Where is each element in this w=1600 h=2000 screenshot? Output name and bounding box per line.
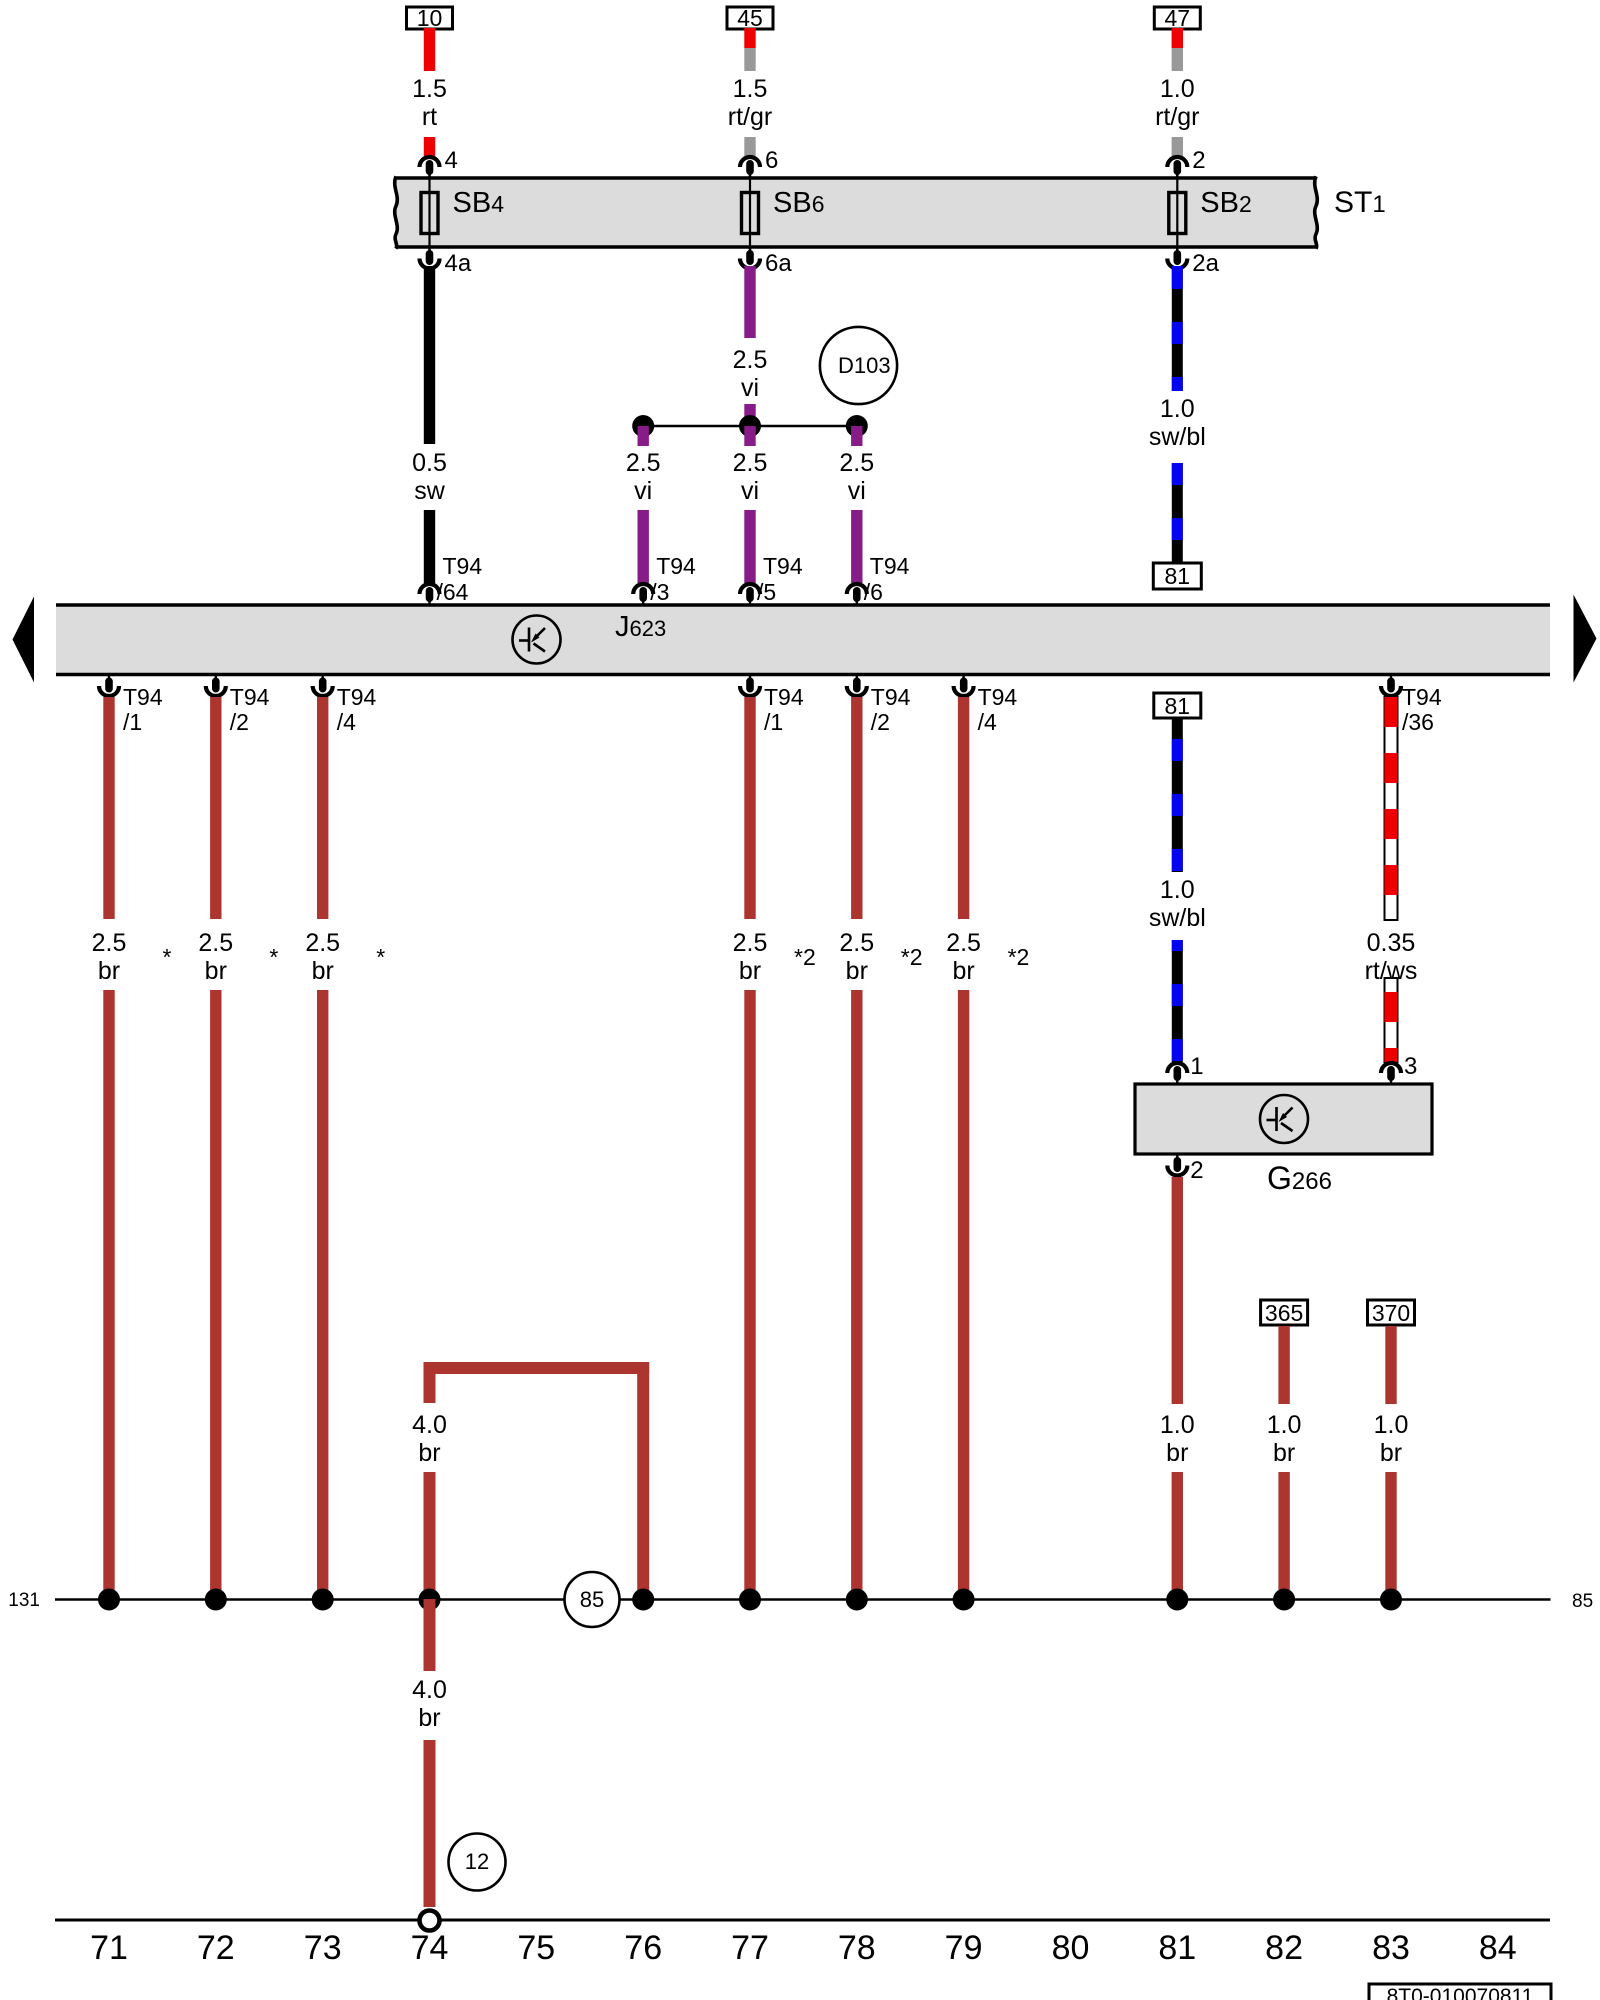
ground node circle 85 [565, 1572, 620, 1627]
junction dot on bus (col 76) [632, 1589, 654, 1611]
connector T94/5 on J623 [740, 584, 760, 594]
fuse SB4 in ST1 [428, 171, 430, 254]
svg-text:76: 76 [624, 1929, 662, 1967]
wire 1.0 rt/gr from terminal 47 (upper segment) [1172, 28, 1183, 48]
wire 1.0 br (col 83, lower segment) [1385, 1472, 1396, 1599]
svg-text:rt/gr: rt/gr [728, 103, 772, 131]
svg-text:1.0: 1.0 [1160, 75, 1195, 103]
svg-text:2.5: 2.5 [733, 346, 768, 374]
wire 4.0 br jumper horizontal [424, 1362, 650, 1374]
wire 2.5 br (col 79, upper segment) [958, 697, 969, 919]
svg-text:370: 370 [1372, 1300, 1410, 1326]
svg-text:*: * [269, 944, 278, 970]
svg-text:131: 131 [8, 1590, 40, 1611]
svg-text:81: 81 [1165, 693, 1191, 719]
junction dot on bus (col 74) [419, 1589, 441, 1611]
junction dot on bus (col 83) [1380, 1589, 1402, 1611]
wire 1.5 rt (lower segment) [424, 137, 435, 156]
svg-text:br: br [1380, 1439, 1402, 1467]
wire 2.5 br (col 72, upper segment) [210, 697, 221, 919]
wire 1.0 sw/bl (below bar, upper segment) [1172, 719, 1183, 872]
wire 0.5 sw (upper segment) [424, 266, 435, 444]
svg-text:365: 365 [1265, 1300, 1303, 1326]
connector pin 6 on fuse strip ST1 [740, 157, 760, 167]
sensor G266 box [1135, 1084, 1432, 1154]
svg-text:ST1: ST1 [1334, 186, 1386, 219]
wire 0.5 sw (lower segment) [424, 510, 435, 583]
svg-text:1.5: 1.5 [733, 75, 768, 103]
svg-text:vi: vi [848, 477, 866, 505]
wire 4.0 br jumper corner (col74 vertical top) [424, 1362, 436, 1403]
svg-text:4.0: 4.0 [412, 1676, 447, 1704]
svg-text:/64: /64 [437, 579, 469, 605]
svg-text:80: 80 [1052, 1929, 1090, 1967]
wire 0.35 rt/ws (upper segment) [1385, 697, 1398, 920]
junction dot on bus (col 81) [1166, 1589, 1188, 1611]
svg-text:2.5: 2.5 [626, 449, 661, 477]
svg-text:br: br [1166, 1439, 1188, 1467]
terminal box 81 below J623 [1154, 693, 1201, 718]
svg-text:2.5: 2.5 [733, 449, 768, 477]
svg-text:T94: T94 [871, 684, 911, 710]
svg-text:81: 81 [1165, 563, 1191, 589]
wire 2.5 vi lower segment (col 76) [638, 510, 649, 583]
junction dot left [632, 415, 654, 437]
wire 4.0 br (col74 below bus, upper) [424, 1599, 436, 1671]
connector pin 6a below ST1 [740, 259, 760, 269]
wire 2.5 br (col 71, upper segment) [103, 697, 114, 919]
wire 2.5 vi stub to junction [744, 404, 755, 426]
connector T94/1 below J623 (col 77) [740, 686, 760, 696]
bottom frame line [55, 1919, 1550, 1922]
junction dot on bus (col 71) [98, 1589, 120, 1611]
svg-text:SB4: SB4 [453, 187, 505, 219]
terminal box 45 [727, 7, 773, 29]
svg-text:T94: T94 [230, 684, 270, 710]
svg-text:2.5: 2.5 [305, 929, 340, 957]
svg-text:br: br [312, 957, 334, 985]
wire 4.0 br (col74 above bus) [424, 1472, 436, 1599]
svg-text:2.5: 2.5 [733, 929, 768, 957]
svg-text:T94: T94 [870, 553, 910, 579]
wire 2.5 vi from 6a (upper segment) [744, 266, 755, 338]
svg-text:br: br [846, 957, 868, 985]
svg-text:1.0: 1.0 [1160, 1411, 1195, 1439]
connector T94/4 below J623 (col 79) [954, 686, 974, 696]
wire 1.0 sw/bl from 2a (upper segment) [1172, 266, 1183, 391]
wire 2.5 vi stub below junction (col 78) [851, 426, 862, 446]
wire 2.5 br (col 77, upper segment) [744, 697, 755, 919]
wire 1.0 rt/gr (lower segment) [1172, 137, 1183, 156]
svg-text:*2: *2 [901, 944, 923, 970]
wire 2.5 vi stub below junction (col 77) [744, 426, 755, 446]
svg-text:T94: T94 [763, 553, 803, 579]
svg-text:SB6: SB6 [773, 187, 824, 219]
fuse SB2 in ST1 [1176, 171, 1178, 254]
svg-text:br: br [1273, 1439, 1295, 1467]
svg-text:vi: vi [741, 374, 759, 402]
svg-text:G266: G266 [1267, 1160, 1332, 1196]
svg-text:81: 81 [1158, 1929, 1196, 1967]
wire 2.5 br (col 71, lower segment) [103, 990, 114, 1599]
svg-text:/36: /36 [1402, 709, 1434, 735]
wire 2.5 vi lower segment (col 77) [744, 510, 755, 583]
svg-text:84: 84 [1479, 1929, 1517, 1967]
svg-text:T94: T94 [123, 684, 163, 710]
svg-text:4: 4 [445, 147, 458, 174]
wire 1.0 br (col 81, lower segment) [1172, 1472, 1183, 1599]
continuation arrow right [1574, 595, 1597, 683]
connector T94/4 below J623 (col 73) [313, 686, 333, 696]
wire 2.5 br (col 73, upper segment) [317, 697, 328, 919]
svg-text:74: 74 [411, 1929, 449, 1967]
connector T94/64 on J623 [420, 584, 440, 594]
svg-text:1.5: 1.5 [412, 75, 447, 103]
svg-text:*2: *2 [794, 944, 816, 970]
svg-text:*2: *2 [1008, 944, 1030, 970]
svg-text:/3: /3 [650, 579, 669, 605]
connector pin 4a below ST1 [420, 259, 440, 269]
svg-text:4.0: 4.0 [412, 1411, 447, 1439]
svg-text:1.0: 1.0 [1374, 1411, 1409, 1439]
wire 1.0 sw/bl (second segment) [1172, 463, 1183, 564]
svg-text:2.5: 2.5 [839, 929, 874, 957]
svg-text:1: 1 [1190, 1053, 1203, 1080]
connector T94/3 on J623 [633, 584, 653, 594]
connector T94/1 below J623 (col 71) [99, 686, 119, 696]
wire 1.0 br from box 370 (upper segment) [1385, 1326, 1396, 1404]
svg-text:79: 79 [945, 1929, 983, 1967]
wire 1.0 br from box 365 (upper segment) [1278, 1326, 1289, 1404]
svg-text:72: 72 [197, 1929, 235, 1967]
junction dot on bus (col 79) [953, 1589, 975, 1611]
svg-text:1.0: 1.0 [1160, 876, 1195, 904]
svg-text:47: 47 [1165, 5, 1191, 31]
svg-text:3: 3 [1404, 1053, 1417, 1080]
wire 2.5 vi stub below junction (col 76) [638, 426, 649, 446]
svg-text:/6: /6 [864, 579, 883, 605]
wire 2.5 br (col 77, lower segment) [744, 990, 755, 1599]
svg-text:/1: /1 [123, 709, 142, 735]
svg-text:2.5: 2.5 [198, 929, 233, 957]
svg-text:2.5: 2.5 [946, 929, 981, 957]
wire 2.5 br (col 78, lower segment) [851, 990, 862, 1599]
wire 1.5 rt/gr (lower segment) [744, 137, 755, 156]
wire 2.5 br (col 73, lower segment) [317, 990, 328, 1599]
connector T94/2 below J623 (col 78) [847, 686, 867, 696]
svg-text:6a: 6a [765, 250, 792, 277]
svg-text:D103: D103 [838, 353, 891, 378]
svg-text:T94: T94 [764, 684, 804, 710]
wire 1.0 br (col 82, lower segment) [1278, 1472, 1289, 1599]
svg-text:0.35: 0.35 [1367, 929, 1416, 957]
svg-text:75: 75 [517, 1929, 555, 1967]
svg-text:83: 83 [1372, 1929, 1410, 1967]
svg-text:*: * [163, 944, 172, 970]
svg-text:/5: /5 [757, 579, 776, 605]
svg-text:T94: T94 [656, 553, 696, 579]
svg-text:J623: J623 [615, 611, 666, 643]
terminal box 10 [407, 7, 453, 29]
svg-text:78: 78 [838, 1929, 876, 1967]
terminal box 81 above J623 [1153, 563, 1201, 589]
terminal box 370 [1368, 1300, 1415, 1325]
junction dot on bus (col 72) [205, 1589, 227, 1611]
junction dot on bus (col 77) [739, 1589, 761, 1611]
wire 2.5 vi lower segment (col 78) [851, 510, 862, 583]
continuation arrow left [13, 597, 35, 683]
fuse SB6 in ST1 [749, 171, 751, 254]
svg-text:10: 10 [417, 5, 443, 31]
svg-text:sw/bl: sw/bl [1149, 423, 1206, 451]
svg-text:2.5: 2.5 [839, 449, 874, 477]
svg-text:T94: T94 [443, 553, 483, 579]
svg-text:/2: /2 [871, 709, 890, 735]
svg-text:vi: vi [634, 477, 652, 505]
connector pin 3 on G266 [1381, 1063, 1401, 1073]
svg-text:sw/bl: sw/bl [1149, 904, 1206, 932]
svg-text:/4: /4 [337, 709, 356, 735]
junction node wire (horizontal) [643, 425, 857, 428]
wire 1.0 br from G266 (upper segment) [1172, 1177, 1183, 1404]
terminal box 47 [1154, 7, 1200, 29]
wire 2.5 br (col 79, lower segment) [958, 990, 969, 1599]
junction dot right [846, 415, 868, 437]
svg-text:73: 73 [304, 1929, 342, 1967]
svg-text:vi: vi [741, 477, 759, 505]
part number box 8T0-010070811 [1369, 1984, 1551, 2000]
junction dot middle [739, 415, 761, 437]
svg-text:/2: /2 [230, 709, 249, 735]
svg-text:T94: T94 [1402, 684, 1442, 710]
svg-text:85: 85 [1572, 1591, 1593, 1612]
svg-text:2.5: 2.5 [92, 929, 127, 957]
svg-text:8T0-010070811: 8T0-010070811 [1387, 1985, 1534, 2000]
junction dot on bus (col 82) [1273, 1589, 1295, 1611]
connector T94/2 below J623 (col 72) [206, 686, 226, 696]
connector pin 2 on G266 [1167, 1166, 1187, 1176]
connector pin 2a below ST1 [1167, 259, 1187, 269]
svg-text:2: 2 [1190, 1157, 1203, 1184]
connector T94/36 below J623 [1381, 686, 1401, 696]
svg-text:1.0: 1.0 [1267, 1411, 1302, 1439]
svg-text:2: 2 [1192, 147, 1205, 174]
svg-text:/1: /1 [764, 709, 783, 735]
sensor symbol in G266 [1260, 1095, 1308, 1143]
ground point (open circle) [420, 1911, 440, 1931]
svg-text:85: 85 [580, 1587, 604, 1612]
control unit symbol in J623 [513, 616, 561, 664]
svg-text:71: 71 [90, 1929, 128, 1967]
svg-text:br: br [739, 957, 761, 985]
svg-text:br: br [205, 957, 227, 985]
wire 1.0 sw/bl (below bar, lower segment) [1172, 940, 1183, 1062]
svg-text:br: br [952, 957, 974, 985]
ground connection circle 12 [449, 1834, 506, 1891]
wire 4.0 br (col74 below bus, lower) [424, 1740, 436, 1907]
wire 4.0 br jumper (col76 vertical) [637, 1362, 649, 1599]
svg-text:*: * [376, 944, 385, 970]
svg-text:0.5: 0.5 [412, 449, 447, 477]
svg-text:1.0: 1.0 [1160, 395, 1195, 423]
connector pin 1 on G266 [1167, 1063, 1187, 1073]
terminal box 365 [1261, 1300, 1308, 1325]
svg-text:br: br [98, 957, 120, 985]
svg-text:br: br [418, 1704, 440, 1732]
svg-text:T94: T94 [337, 684, 377, 710]
control unit J623 bar [56, 605, 1550, 675]
svg-text:sw: sw [414, 477, 446, 505]
junction dot on bus (col 73) [312, 1589, 334, 1611]
svg-text:45: 45 [737, 5, 763, 31]
wire 2.5 br (col 72, lower segment) [210, 990, 221, 1599]
svg-text:rt/gr: rt/gr [1155, 103, 1199, 131]
svg-text:6: 6 [765, 147, 778, 174]
svg-text:12: 12 [465, 1849, 489, 1874]
wire 2.5 br (col 78, upper segment) [851, 697, 862, 919]
connector pin 2 on fuse strip ST1 [1167, 157, 1187, 167]
svg-text:br: br [418, 1439, 440, 1467]
svg-text:/4: /4 [978, 709, 997, 735]
svg-text:rt: rt [422, 103, 437, 131]
svg-text:77: 77 [731, 1929, 769, 1967]
wire 0.35 rt/ws (lower segment) [1385, 978, 1398, 1062]
junction dot on bus (col 78) [846, 1589, 868, 1611]
svg-text:SB2: SB2 [1200, 187, 1251, 219]
wire 1.5 rt/gr from terminal 45 (upper segment) [744, 28, 755, 48]
wire 1.5 rt from terminal 10 (upper segment) [424, 28, 435, 71]
svg-text:82: 82 [1265, 1929, 1303, 1967]
fuse strip ST1 bar [396, 178, 1316, 247]
connector T94/6 on J623 [847, 584, 867, 594]
connector pin 4 on fuse strip ST1 [420, 157, 440, 167]
svg-text:4a: 4a [445, 250, 472, 277]
svg-text:2a: 2a [1192, 250, 1219, 277]
ground bus wire 131-85 [55, 1598, 1551, 1601]
node label D103 [820, 327, 897, 404]
svg-text:T94: T94 [978, 684, 1018, 710]
